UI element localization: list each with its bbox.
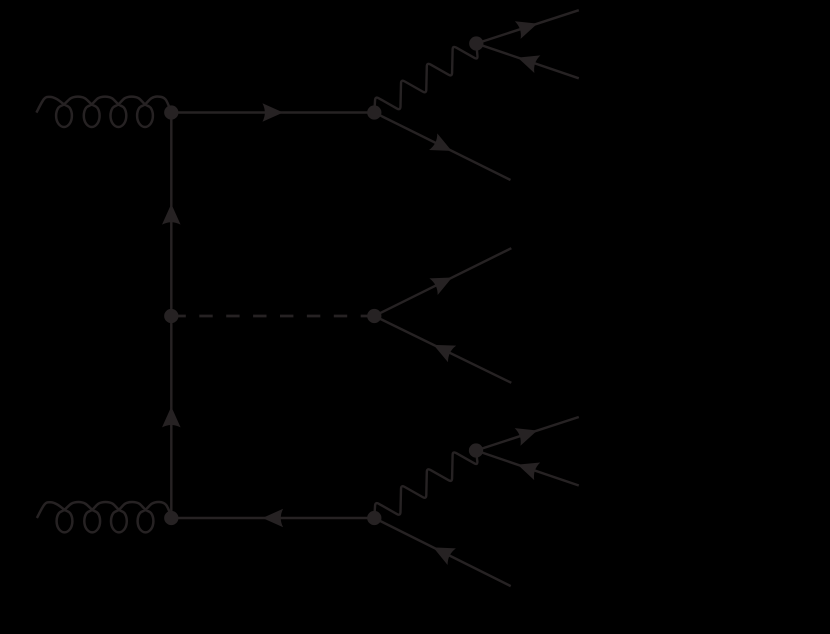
arrow left on tbar line — [262, 509, 283, 528]
vertex V2 (t-W-b) — [367, 105, 381, 119]
antifermion bbar from H — [374, 316, 511, 383]
arrow in on W+ antifermion — [518, 55, 541, 73]
arrow right on t line — [262, 103, 283, 122]
arrow out on W- fermion — [515, 428, 538, 446]
bbar quark from tbar — [374, 518, 510, 586]
W boson (wavy, bottom) — [374, 451, 477, 519]
arrow in on bbar — [434, 345, 457, 362]
arrow out on b — [429, 278, 452, 296]
vertex V7 (tbar-W-bbar) — [367, 511, 381, 525]
arrow in on bbar quark — [433, 547, 456, 565]
top quark t (V1 to V2) — [171, 111, 374, 113]
antifermion from W+ (top) — [476, 44, 579, 79]
vertex V4 (t-t-H) — [164, 309, 178, 323]
Higgs boson H (dashed) — [172, 315, 374, 318]
arrow up on t propagator (upper segment) — [162, 204, 181, 225]
vertex V3 (W decay, top) — [469, 36, 483, 50]
W boson (wavy, top) — [374, 44, 477, 113]
fermion from W- (bottom) — [476, 417, 579, 451]
b quark from t — [374, 113, 510, 181]
arrow in on W- antifermion — [518, 463, 541, 481]
vertex V6 (g-t-t) — [164, 511, 178, 525]
arrow out on W+ fermion — [515, 21, 538, 39]
vertex V8 (W decay, bottom) — [469, 443, 483, 457]
antitop tbar (V6 to V7) — [171, 517, 374, 519]
vertex V1 (g-t-t) — [164, 105, 178, 119]
gluon g1 (incoming top-left) — [36, 97, 171, 127]
arrow out on b quark — [429, 133, 452, 151]
vertex V5 (H decay) — [367, 309, 381, 323]
quark propagator (vertical t line) — [170, 113, 172, 519]
arrow up on t propagator (lower segment) — [162, 407, 181, 428]
gluon g2 (incoming bottom-left) — [37, 502, 172, 532]
fermion from W+ (top) — [476, 10, 579, 43]
fermion b from H — [374, 248, 511, 316]
antifermion from W- (bottom) — [476, 451, 579, 486]
